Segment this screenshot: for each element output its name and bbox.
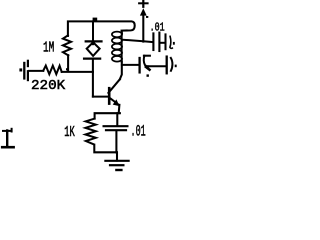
wire 220K to crystal lead: [62, 71, 93, 73]
label I (figure): [2, 129, 13, 147]
ground: [105, 152, 128, 170]
svg-text:1M: 1M: [43, 41, 54, 57]
wire emitter row: [95, 113, 120, 118]
node rail/crystal junction: [93, 18, 98, 21]
wire coil bottom tap to C2: [122, 64, 138, 66]
supply + terminal: [139, 0, 148, 41]
inductor L1: [112, 32, 122, 62]
jack J3 (right middle): [167, 57, 177, 74]
wire C2 to J3: [148, 65, 165, 67]
svg-text:1K: 1K: [64, 125, 75, 141]
wire J1 to 220K: [29, 70, 43, 72]
svg-text:.01: .01: [131, 123, 146, 141]
transistor Q1: [108, 79, 120, 106]
wire emitter lead: [118, 105, 121, 113]
resistor 1K: [85, 119, 95, 145]
capacitor C1 .01 (top): [153, 33, 164, 51]
crystal Y1: [84, 21, 101, 58]
wire base lead: [93, 96, 108, 98]
svg-text:.01: .01: [150, 20, 165, 34]
jack J2 (top output): [166, 34, 175, 49]
svg-text:220K: 220K: [31, 78, 66, 94]
node junction 1M/220K: [66, 68, 68, 70]
resistor R1 1M: [63, 35, 71, 55]
wire coil tap to C1: [122, 40, 152, 42]
wire coil bottom to collector: [120, 62, 122, 80]
capacitor C2 (variable): [140, 56, 150, 77]
wire top rail: [68, 21, 135, 36]
jack J1 (input): [19, 60, 28, 81]
resistor 220K: [43, 66, 61, 75]
capacitor C3 .01 (bottom): [104, 113, 128, 152]
wire 1M bottom lead: [67, 55, 69, 71]
wire 1K bottom: [94, 145, 117, 153]
wire crystal to base: [92, 60, 94, 97]
